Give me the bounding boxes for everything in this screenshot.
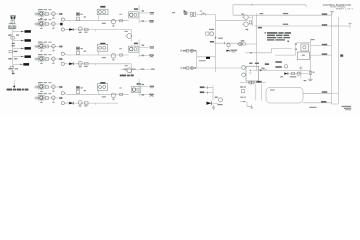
transistor Q out — [127, 68, 132, 73]
cluster label above — [134, 43, 138, 45]
transistor Q mid — [78, 27, 82, 31]
transistor Q on wire — [111, 93, 115, 97]
capacitor small right of chain — [84, 16, 86, 17]
resistor R col3 with label — [9, 51, 12, 53]
indicator LED — [184, 12, 187, 15]
box lead down — [98, 51, 100, 55]
driver box A upper — [301, 44, 309, 51]
resistor cluster — [134, 13, 136, 16]
marks on branch lower — [142, 55, 145, 57]
wire stub down — [40, 16, 42, 18]
resistor pair2 — [243, 43, 246, 45]
transistor driver B2 — [297, 72, 300, 75]
transistor Q in box a — [99, 46, 102, 49]
transistor pair 2 — [239, 42, 242, 45]
dark tick above — [287, 41, 289, 42]
capacitor C — [35, 85, 37, 88]
fuse sym 2 — [149, 94, 154, 95]
regulator U box — [97, 84, 107, 91]
connector pin J lower — [61, 62, 64, 65]
wire driver B arrow level — [288, 73, 308, 75]
transistor Q b — [52, 85, 56, 89]
mark under pair1 — [246, 29, 249, 30]
note text — [7, 89, 13, 91]
transistor Q b — [52, 12, 56, 16]
flasher row 2 — [45, 18, 47, 21]
bus pair1 — [252, 15, 254, 26]
junction — [94, 30, 96, 32]
label mid — [79, 32, 82, 33]
label mid B — [210, 41, 214, 43]
terminal — [59, 97, 61, 99]
connector blob 1 — [25, 30, 31, 33]
capacitor C — [35, 12, 37, 15]
wire relay out y69.3 — [259, 68, 267, 70]
opto box — [190, 12, 195, 16]
diode D1 — [9, 26, 12, 28]
connector pin J lower — [61, 102, 64, 105]
resistor R mid — [84, 28, 88, 31]
arrow blob bottom mid — [206, 102, 211, 105]
connector pin J upper — [61, 18, 64, 21]
marks right of arrow — [231, 50, 237, 51]
cluster label above — [134, 8, 138, 10]
wire main upper — [67, 54, 129, 56]
terminal — [59, 13, 61, 15]
marks near x119 — [119, 87, 122, 88]
ground col — [11, 68, 14, 72]
label row1 — [8, 35, 11, 36]
capacitor C col bottom — [10, 66, 13, 68]
labels above relay box — [249, 63, 252, 64]
connector pin J lower — [61, 28, 64, 31]
relay rounded box — [266, 87, 303, 103]
wire y102.8 — [303, 102, 332, 104]
connector blob 2 — [25, 39, 31, 42]
wire stub down — [40, 100, 42, 102]
marks right of bus — [215, 97, 218, 98]
wire — [34, 13, 60, 15]
transistor Q cluster — [130, 47, 133, 50]
wire diode joins — [9, 28, 16, 30]
wire y70.4 long — [253, 69, 312, 71]
left connector PL1 (mains plug) — [10, 16, 16, 20]
arrow driver B — [284, 72, 287, 74]
branch wire 2 — [139, 20, 149, 22]
label row text — [38, 9, 43, 10]
notes text block right — [265, 32, 266, 33]
transistor bottom mid — [219, 98, 223, 102]
marks right of wire y43 — [239, 43, 242, 44]
label col4 — [8, 58, 12, 59]
capacitor C elec 1 — [76, 47, 79, 50]
diode arrow solid — [69, 63, 73, 66]
plus marks in relay box — [249, 69, 251, 73]
wire — [34, 46, 60, 48]
marks on branch upper — [142, 84, 145, 85]
transistor Q mid — [78, 101, 82, 105]
label mid — [79, 106, 82, 107]
bus bottom mid — [212, 85, 214, 100]
marks near x119 — [119, 48, 122, 49]
terminal — [59, 45, 61, 47]
resistor R on wire — [120, 20, 123, 22]
resistor cluster — [134, 48, 136, 51]
capacitor C — [35, 45, 37, 48]
gate row B — [181, 67, 197, 69]
wire out 5 — [13, 63, 23, 65]
label pair2 — [241, 40, 245, 41]
label row text — [38, 93, 43, 94]
resistor R a — [45, 23, 48, 26]
step wire pair2 — [246, 49, 293, 53]
wire y20.7 mid — [216, 20, 248, 22]
marks bottom mid right — [217, 104, 222, 105]
wire — [34, 58, 60, 60]
capacitor sym 1 — [150, 12, 154, 13]
wire pair2 y44 — [246, 43, 257, 45]
cap vert right — [309, 71, 311, 74]
driver label bottom mid 1 — [200, 86, 205, 88]
stub x350 — [349, 23, 351, 28]
wire y55.1 right seg — [310, 54, 332, 56]
regulator U label — [100, 6, 105, 8]
capacitor C — [35, 96, 37, 99]
transistor Q in box b — [103, 46, 106, 49]
wire stub down — [40, 61, 42, 63]
ticks on opto wire — [200, 14, 202, 16]
corner down bottom — [247, 102, 252, 107]
wire y56.8 — [197, 56, 216, 58]
label row text — [38, 82, 43, 83]
wire lower rail — [67, 102, 119, 104]
plus mark x300.9 — [299, 66, 302, 69]
connector blob 5 — [23, 63, 29, 66]
wire y82.6 — [240, 82, 266, 84]
wire y55.1 left seg — [275, 54, 296, 56]
resistor R a — [45, 58, 48, 61]
label under wire — [102, 23, 106, 24]
resistor driver B — [291, 72, 294, 74]
wire lower rail — [67, 63, 132, 65]
gate row A — [181, 50, 197, 52]
wire lower rail — [67, 29, 132, 31]
cluster label above — [137, 83, 141, 85]
resistor R on wire — [120, 54, 123, 56]
label dark right of relay — [265, 63, 269, 65]
faint mark x199 — [200, 11, 202, 12]
transistor Q a — [39, 56, 44, 61]
faint mark x172 — [172, 12, 175, 13]
resistor R mid — [84, 102, 88, 105]
marks below driver B — [280, 76, 283, 77]
box lead down — [98, 91, 100, 95]
cluster outline box — [129, 46, 139, 52]
regulator U box — [97, 9, 108, 14]
bus vertical x215.5 — [215, 15, 217, 73]
capacitor C — [35, 22, 37, 25]
transistor pair 1 — [244, 15, 248, 19]
bus x255.8 — [255, 84, 257, 101]
connector blob 3 — [25, 47, 31, 50]
transistor Q a — [39, 21, 44, 26]
wire bottom mid 1 — [205, 87, 213, 89]
branch vertical x139 — [138, 5, 140, 23]
terminal — [59, 58, 61, 60]
capacitor small right of chain — [84, 90, 86, 91]
resistor R a — [45, 97, 48, 100]
wire A y15.2 — [233, 14, 332, 16]
label row text — [38, 54, 43, 55]
zener ZD1 — [12, 45, 15, 46]
indicator tick — [183, 10, 185, 12]
svg-text:SHEET 1 OF 1: SHEET 1 OF 1 — [336, 9, 353, 11]
wire B y26 — [254, 25, 350, 27]
bottom left labels right sect — [240, 86, 243, 87]
transistor Q out — [127, 34, 132, 39]
label under wire — [102, 57, 106, 58]
marks on branch lower — [142, 20, 145, 22]
transistor Q on wire — [111, 54, 115, 58]
wire bottom mid 2 — [205, 92, 213, 94]
transistor Q cluster — [132, 88, 135, 91]
bus x256.7 vertical — [256, 13, 258, 70]
capacitor small right of chain — [84, 51, 86, 52]
wire y42.8 over box — [297, 42, 311, 44]
capacitor C elec 2 — [76, 91, 79, 94]
wire stub down — [40, 49, 42, 51]
box lead down — [98, 15, 100, 21]
transistor Q a — [39, 95, 44, 100]
wire main upper — [67, 93, 129, 95]
transistor Q in box a — [98, 11, 101, 14]
cap bottom x310 — [308, 79, 312, 80]
bottom small label — [309, 107, 316, 108]
label row text — [38, 19, 43, 20]
resistor R on wire — [120, 93, 123, 95]
top right rail — [233, 5, 307, 15]
cluster outline box — [131, 87, 141, 93]
marks on branch lower — [142, 94, 145, 96]
relay mark right — [340, 54, 343, 56]
bus join x196.7 — [196, 51, 198, 68]
capacitor C elec 2 — [76, 51, 79, 54]
resistor R a — [45, 13, 48, 16]
label on bus top — [260, 13, 264, 14]
transistor Q b — [52, 96, 56, 100]
transistor mid y45 — [227, 43, 230, 46]
driver cluster B labels — [275, 61, 281, 63]
wire — [34, 97, 60, 99]
bus x310.3 — [309, 39, 311, 79]
wire out 3 — [13, 47, 25, 49]
branch wire 1 — [139, 86, 148, 88]
wire out 2 — [13, 40, 25, 42]
terminal — [59, 86, 61, 88]
branch vertical x139 — [138, 39, 140, 57]
text mid dark — [120, 75, 126, 77]
diode arrow solid — [69, 28, 73, 31]
wire corner down — [130, 64, 132, 76]
sensor box mid — [206, 32, 209, 35]
bus x338.3 — [337, 17, 339, 104]
transistor Q a — [39, 44, 44, 49]
diode row mid — [123, 69, 127, 70]
wire led out — [187, 12, 189, 14]
label col2 — [12, 43, 15, 44]
driver label bottom mid 2 — [200, 91, 204, 93]
transistor Q cluster — [130, 13, 133, 16]
relay box pair 3 — [246, 66, 259, 81]
pin top A — [331, 12, 333, 16]
marks near x119 — [119, 14, 122, 15]
resistor R a — [45, 86, 48, 89]
connector blob — [60, 23, 62, 26]
diode D2 — [13, 26, 16, 28]
wire stub down — [40, 26, 42, 28]
marks right of box A — [311, 39, 315, 40]
transistor Q a — [39, 11, 44, 16]
capacitor sym 1 — [150, 86, 154, 87]
wire y45.5 — [310, 45, 331, 47]
transistor Q b — [52, 44, 56, 48]
resistor R a — [45, 45, 48, 48]
junction blob mid — [206, 57, 210, 59]
label under wire — [102, 96, 106, 97]
diode arrow solid — [69, 102, 73, 105]
wire y93 — [303, 92, 332, 94]
capacitor C — [35, 57, 37, 60]
polarity mark — [12, 73, 15, 74]
transistor Q mid — [78, 61, 82, 65]
wire arrow out — [212, 102, 219, 104]
wire y68 to right — [197, 67, 241, 69]
transistor Q b — [52, 22, 56, 26]
branch wire 1 — [139, 46, 148, 48]
transistor driver B — [284, 65, 288, 69]
transistor pair 3 b — [242, 73, 246, 77]
resistor R mid — [84, 63, 88, 66]
fuse sym 2 — [149, 20, 154, 21]
junction circles — [249, 81, 252, 84]
wire column vertical — [12, 20, 14, 67]
wire main upper — [67, 20, 129, 22]
transistor pair 3 a — [242, 66, 246, 70]
resistor R col2 — [11, 37, 15, 39]
wire stub down — [40, 89, 42, 91]
wire — [34, 86, 60, 88]
wire corner down — [130, 30, 132, 42]
ground bottom mid — [212, 105, 215, 110]
ground sensor — [214, 36, 216, 39]
transistor Q b — [52, 57, 56, 61]
resistor pair1 mid — [249, 21, 252, 24]
cluster outline box — [129, 12, 139, 18]
resistor bottom left sect — [241, 90, 244, 93]
transistor Q in box a — [99, 86, 102, 89]
fuse sym 2 — [149, 54, 154, 55]
label F1 — [11, 23, 13, 24]
bus x295.7 — [295, 43, 297, 55]
marks on branch upper — [142, 45, 145, 46]
branch wire 2 — [139, 94, 149, 96]
branch vertical x139 — [138, 79, 140, 97]
branch wire 2 — [139, 54, 149, 56]
capacitor C elec 1 — [76, 13, 79, 16]
label mid — [79, 66, 82, 67]
wire out 4 — [13, 56, 25, 58]
connector pin J upper — [61, 52, 64, 55]
transistor Q in box b — [103, 86, 106, 89]
bus x261.5 — [261, 84, 263, 101]
regulator U box — [97, 44, 107, 51]
bus joins — [332, 25, 339, 27]
junction — [94, 103, 96, 105]
label row text — [38, 42, 43, 43]
bottom right text — [342, 106, 352, 107]
capacitor C elec 1 — [76, 86, 79, 89]
wire y43.2 — [214, 42, 239, 44]
label between rows — [199, 60, 206, 61]
transistor Q on wire — [111, 19, 115, 23]
wire y101.7 bottom — [240, 101, 246, 103]
bus x300.9 lower — [300, 70, 302, 78]
transistor Q a — [39, 84, 44, 89]
regulator U label — [100, 43, 105, 45]
capacitor sym 1 — [150, 46, 154, 47]
black arrow mid — [226, 50, 229, 52]
capacitor C elec 2 — [76, 17, 79, 20]
connector blob 4 — [25, 55, 31, 58]
connector pin J upper — [61, 92, 64, 95]
marks bottom left sect — [240, 97, 242, 98]
ground bottom right sect — [251, 105, 253, 108]
label dark on wire — [256, 81, 261, 83]
transistor Q in box b — [103, 11, 106, 14]
wire — [34, 23, 60, 25]
marks left of box A — [295, 43, 297, 44]
driver box A lower — [297, 52, 309, 60]
marks on branch upper — [142, 10, 145, 11]
regulator U label — [100, 82, 105, 84]
transistor sensor — [210, 32, 214, 36]
fuse F1 — [11, 21, 15, 24]
label mid A — [218, 38, 223, 39]
bus x331.5 — [331, 12, 333, 105]
labels col bottom — [8, 68, 11, 69]
note arrow — [13, 80, 15, 86]
wire out 1 — [13, 31, 25, 33]
resistor cluster — [137, 88, 139, 91]
branch wire 1 — [139, 12, 148, 14]
junction — [94, 64, 96, 66]
